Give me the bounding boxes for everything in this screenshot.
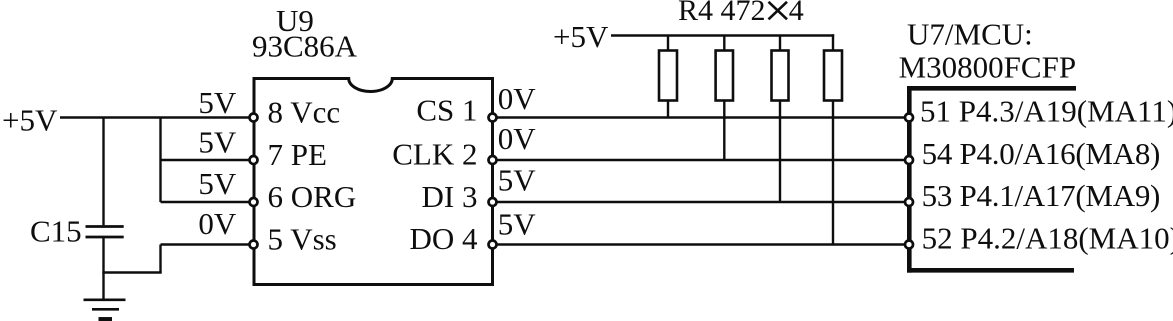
resistor R4b body [716, 51, 733, 101]
svg-text:4: 4 [789, 0, 804, 27]
wire cap to ground [102, 238, 104, 299]
svg-text:52 P4.2/A18(MA10): 52 P4.2/A18(MA10) [922, 221, 1173, 256]
wire vss down [159, 245, 161, 273]
resistor R4c top stub [779, 36, 781, 51]
resistor R4d body [824, 51, 842, 101]
pin circle U9 pin1 CS [489, 114, 497, 122]
multiplication sign stroke 1 [769, 2, 788, 20]
svg-text:C15: C15 [30, 214, 82, 249]
wire DO to MCU pin 52 [497, 243, 905, 245]
wire CLK to MCU pin 54 [497, 159, 905, 161]
pin circle MCU pin51 [905, 114, 913, 122]
pin circle U9 pin2 CLK [489, 156, 497, 164]
svg-text:8 Vcc: 8 Vcc [268, 94, 341, 129]
svg-text:93C86A: 93C86A [252, 29, 358, 64]
pin circle U9 pin6 [250, 198, 258, 206]
ground bar 1 [84, 298, 126, 301]
svg-text:6 ORG: 6 ORG [268, 179, 357, 214]
pin circle MCU pin52 [905, 241, 913, 249]
wire branch vertical x160 [159, 118, 161, 203]
svg-text:+5V: +5V [2, 102, 58, 137]
svg-text:R4 472: R4 472 [678, 0, 766, 27]
resistor R4a bottom stub to wire CS [667, 101, 669, 118]
svg-text:5V: 5V [198, 125, 237, 160]
MCU U7 bracket bottom edge [907, 268, 1074, 273]
capacitor C15 plate bottom [86, 236, 124, 239]
resistor R4c bottom stub to wire DI [779, 101, 781, 203]
svg-text:0V: 0V [498, 81, 537, 116]
wire +5V to pin 8 [60, 116, 250, 118]
svg-text:M30800FCFP: M30800FCFP [899, 50, 1076, 85]
resistor R4c body [772, 51, 789, 101]
MCU U7 bracket left edge [907, 86, 912, 273]
svg-text:0V: 0V [198, 206, 237, 241]
svg-text:5V: 5V [498, 163, 537, 198]
IC U9 93C86A outline with notch [254, 79, 493, 285]
svg-text:54 P4.0/A16(MA8): 54 P4.0/A16(MA8) [922, 136, 1161, 171]
capacitor C15 plate top [86, 225, 124, 228]
svg-text:5V: 5V [198, 85, 237, 120]
ground bar 2 [92, 308, 119, 311]
wire +5V to resistors top rail [611, 34, 834, 36]
svg-text:U7/MCU:: U7/MCU: [907, 16, 1033, 51]
resistor R4b bottom stub to wire CLK [723, 101, 725, 161]
wire from pin 5 [161, 243, 250, 245]
svg-text:51 P4.3/A19(MA11): 51 P4.3/A19(MA11) [920, 94, 1173, 129]
wire to pin 6 [161, 201, 250, 203]
multiplication sign stroke 2 [769, 2, 788, 20]
pin circle U9 pin4 DO [489, 241, 497, 249]
svg-text:53 P4.1/A17(MA9): 53 P4.1/A17(MA9) [922, 178, 1161, 213]
resistor R4b top stub [723, 36, 725, 51]
svg-text:CS 1: CS 1 [416, 93, 477, 128]
resistor R4d top stub [832, 34, 834, 50]
svg-text:7 PE: 7 PE [268, 137, 327, 172]
pin circle MCU pin54 [905, 156, 913, 164]
MCU U7 bracket top edge [907, 86, 1076, 91]
svg-text:5V: 5V [198, 166, 237, 201]
pin circle U9 pin8 [250, 114, 258, 122]
resistor R4d bottom stub to wire DO [832, 101, 834, 245]
wire CS to MCU pin 51 [497, 116, 905, 118]
ground bar 3 [99, 317, 113, 321]
wire to pin 7 [161, 159, 250, 161]
svg-text:+5V: +5V [553, 19, 609, 54]
pin circle MCU pin53 [905, 198, 913, 206]
svg-text:5 Vss: 5 Vss [268, 221, 337, 256]
wire branch vertical to C15 [102, 118, 104, 226]
resistor R4a top stub [667, 36, 669, 51]
pin circle U9 pin3 DI [489, 198, 497, 206]
svg-text:CLK 2: CLK 2 [392, 136, 477, 171]
pin circle U9 pin7 [250, 156, 258, 164]
pin circle U9 pin5 [250, 241, 258, 249]
wire vss to ground node [102, 271, 161, 273]
resistor R4a body [659, 51, 677, 101]
svg-text:DI 3: DI 3 [422, 179, 478, 214]
wire DI to MCU pin 53 [497, 201, 905, 203]
svg-text:5V: 5V [498, 207, 537, 242]
svg-text:DO 4: DO 4 [409, 221, 478, 256]
svg-text:0V: 0V [498, 121, 537, 156]
